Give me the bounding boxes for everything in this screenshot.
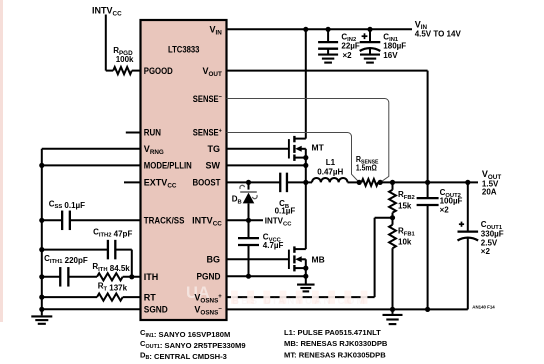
svg-text:CSS 0.1µF: CSS 0.1µF [49, 199, 85, 210]
svg-text:MODE/PLLIN: MODE/PLLIN [144, 161, 192, 171]
svg-text:22µF: 22µF [341, 42, 360, 51]
svg-text:16V: 16V [383, 51, 398, 60]
svg-text:LTC3833: LTC3833 [168, 44, 200, 54]
svg-text:BBS DIANYUAN COM: BBS DIANYUAN COM [232, 296, 367, 307]
svg-text:MB: MB [312, 255, 325, 265]
svg-text:15k: 15k [398, 201, 412, 210]
svg-text:10k: 10k [398, 237, 412, 246]
svg-text:×2: ×2 [440, 206, 450, 215]
svg-text:RT: RT [144, 292, 156, 302]
svg-text:MT: RENESAS RJK0305DPB: MT: RENESAS RJK0305DPB [284, 350, 386, 359]
svg-text:TG: TG [208, 144, 221, 154]
svg-text:100µF: 100µF [440, 197, 463, 206]
svg-text:RUN: RUN [144, 128, 161, 138]
svg-text:RITH 84.5k: RITH 84.5k [92, 262, 130, 273]
svg-text:×2: ×2 [481, 247, 491, 256]
svg-text:180µF: 180µF [383, 42, 406, 51]
svg-text:TRACK/SS: TRACK/SS [144, 216, 185, 226]
svg-text:SENSE−: SENSE− [193, 94, 222, 104]
svg-text:ITH: ITH [144, 272, 159, 282]
svg-text:PGOOD: PGOOD [144, 66, 173, 76]
svg-text:0.47µH: 0.47µH [317, 167, 343, 176]
svg-text:CIN1: SANYO 16SVP180M: CIN1: SANYO 16SVP180M [140, 328, 230, 339]
svg-text:20A: 20A [482, 187, 497, 196]
svg-text:SENSE+: SENSE+ [193, 128, 222, 138]
svg-text:×2: ×2 [343, 51, 353, 60]
svg-text:L1: L1 [326, 158, 336, 167]
svg-text:BG: BG [207, 255, 221, 265]
svg-text:PGND: PGND [197, 271, 221, 281]
svg-text:MT: MT [312, 142, 325, 152]
svg-text:SGND: SGND [144, 305, 168, 315]
svg-text:BOOST: BOOST [193, 178, 221, 188]
svg-text:1.5mΩ: 1.5mΩ [356, 164, 377, 173]
svg-text:0.1µF: 0.1µF [275, 206, 296, 215]
svg-text:4.5V TO 14V: 4.5V TO 14V [415, 30, 462, 39]
svg-text:DB: CENTRAL CMDSH-3: DB: CENTRAL CMDSH-3 [140, 350, 227, 361]
svg-text:330µF: 330µF [481, 229, 504, 238]
svg-text:L1: PULSE PA0515.471NLT: L1: PULSE PA0515.471NLT [284, 328, 381, 337]
svg-text:4.7µF: 4.7µF [263, 241, 284, 250]
svg-text:MB: RENESAS RJK0330DPB: MB: RENESAS RJK0330DPB [284, 339, 388, 348]
svg-text:100k: 100k [116, 55, 134, 64]
svg-text:2.5V: 2.5V [481, 238, 498, 247]
svg-text:AN140 F14: AN140 F14 [472, 305, 495, 310]
svg-text:SW: SW [206, 161, 221, 171]
